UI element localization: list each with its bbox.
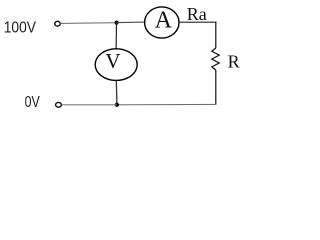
wire: 0V terminal to node B bbox=[62, 104, 117, 106]
resistor R zigzag bbox=[212, 48, 219, 70]
wire: node A to ammeter bbox=[117, 21, 145, 24]
wire: voltmeter down to node B bbox=[115, 80, 118, 104]
wire: ammeter to top-right corner bbox=[179, 21, 216, 23]
svg-text:A: A bbox=[155, 8, 173, 34]
node A junction dot bbox=[115, 21, 119, 25]
svg-text:Ra: Ra bbox=[187, 4, 207, 24]
voltmeter U2 circle bbox=[95, 49, 137, 81]
wire: 100V terminal to node A bbox=[60, 22, 116, 25]
svg-text:0V: 0V bbox=[25, 94, 40, 111]
terminal 0V bbox=[56, 102, 62, 107]
node B junction dot bbox=[115, 103, 119, 107]
wire: node B to bottom-right corner bbox=[117, 103, 216, 105]
wire: right side down to resistor bbox=[215, 22, 217, 48]
svg-text:V: V bbox=[105, 49, 120, 73]
svg-text:R: R bbox=[228, 52, 240, 72]
op-amp ammeter U1 circle bbox=[145, 7, 179, 38]
wire: node A down to voltmeter bbox=[115, 23, 117, 49]
terminal 100V bbox=[55, 21, 60, 26]
svg-text:100V: 100V bbox=[4, 20, 37, 37]
wire: resistor to bottom-right corner bbox=[215, 70, 217, 105]
